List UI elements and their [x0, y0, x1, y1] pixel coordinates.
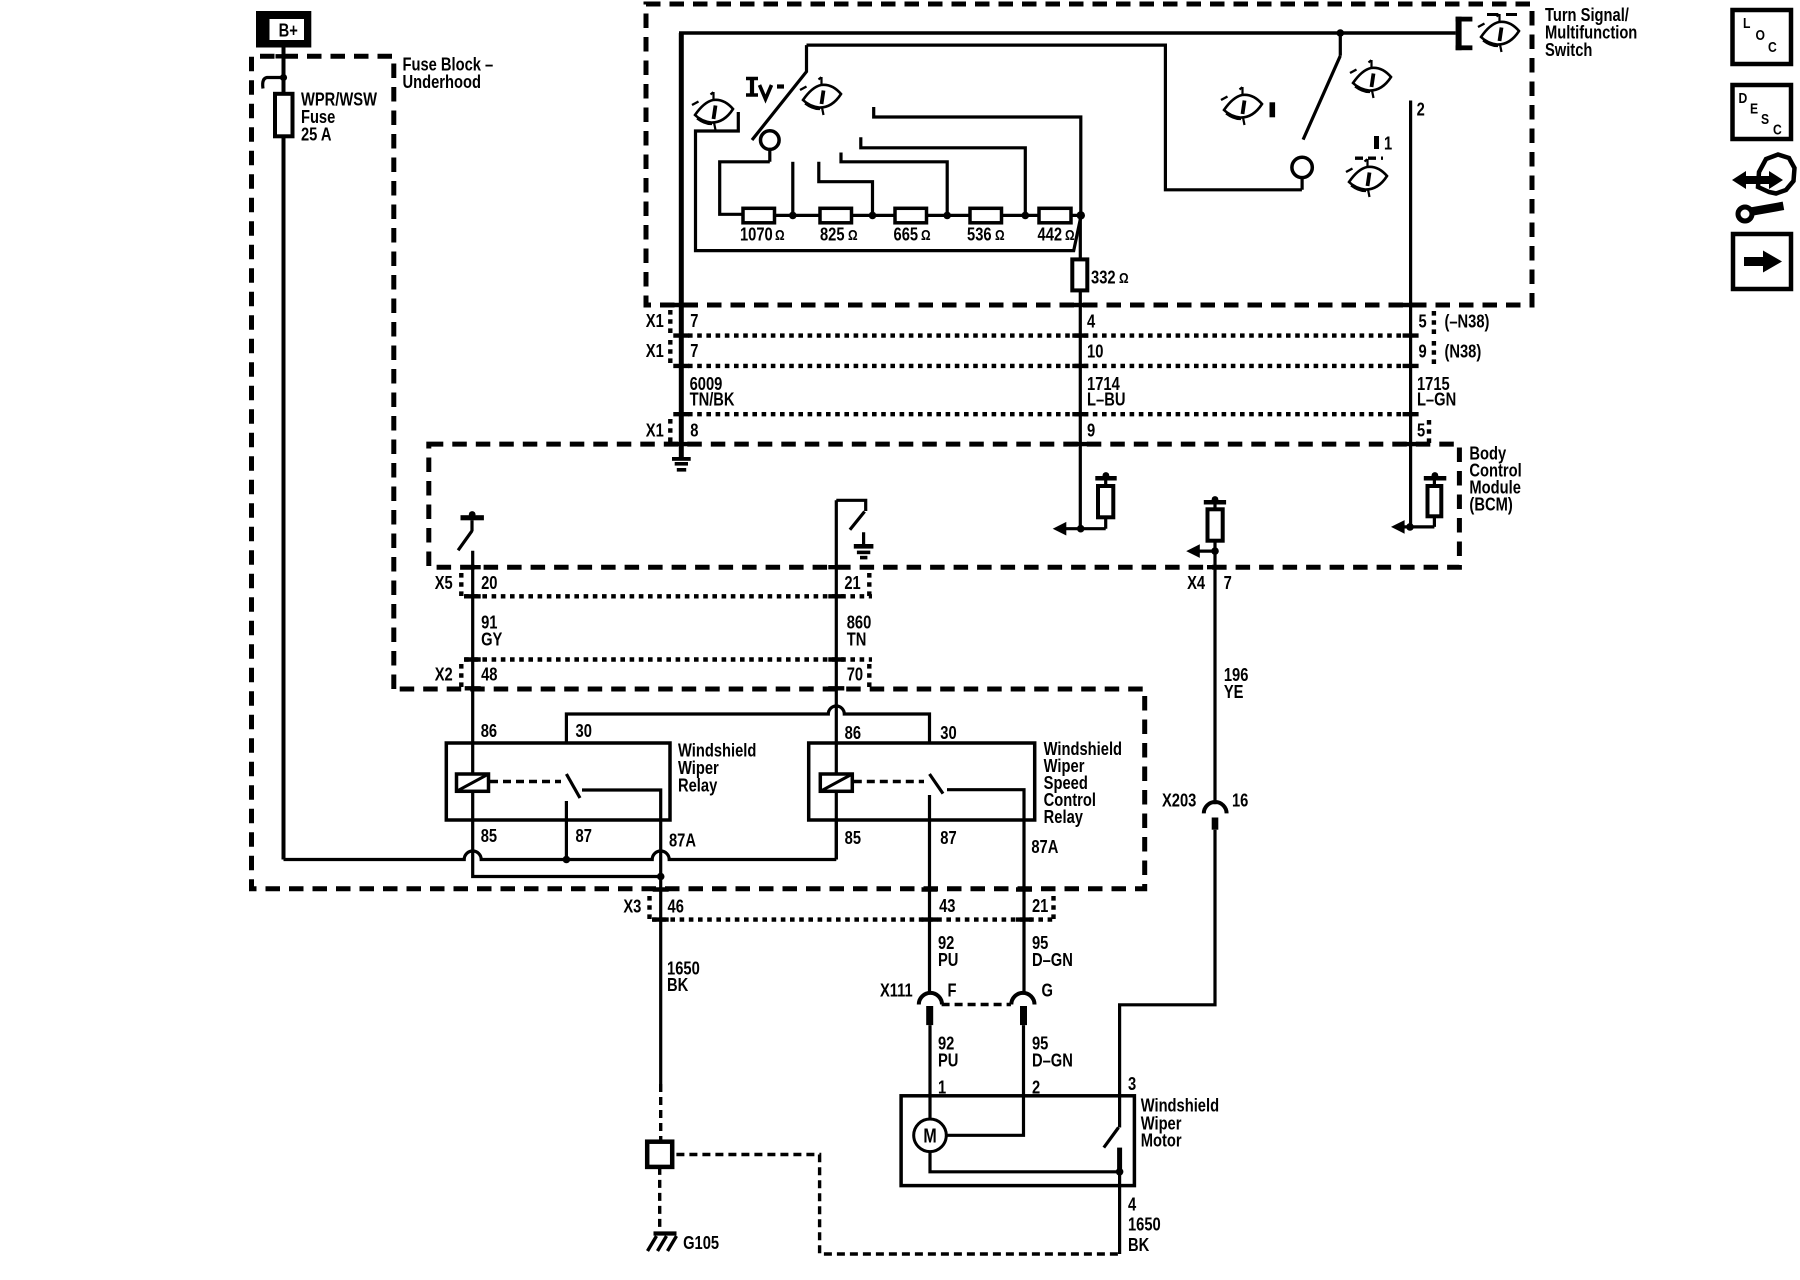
svg-text:30: 30 — [576, 720, 592, 741]
svg-text:86: 86 — [481, 720, 497, 741]
svg-text:4: 4 — [1128, 1194, 1137, 1215]
svg-text:3: 3 — [1128, 1073, 1136, 1094]
svg-text:Ω: Ω — [921, 227, 931, 244]
svg-text:2: 2 — [1417, 99, 1425, 120]
svg-text:Switch: Switch — [1545, 40, 1592, 61]
svg-text:5: 5 — [1417, 420, 1425, 441]
svg-text:X111: X111 — [880, 980, 913, 1001]
svg-text:48: 48 — [481, 664, 497, 685]
svg-text:X4: X4 — [1187, 572, 1206, 593]
svg-text:TN/BK: TN/BK — [690, 389, 735, 410]
svg-text:87A: 87A — [1031, 836, 1058, 857]
svg-text:7: 7 — [690, 310, 698, 331]
svg-text:70: 70 — [847, 664, 863, 685]
svg-text:GY: GY — [481, 629, 502, 650]
svg-text:X2: X2 — [435, 664, 453, 685]
svg-text:87A: 87A — [669, 830, 696, 851]
svg-text:332: 332 — [1091, 267, 1116, 288]
svg-text:9: 9 — [1418, 341, 1426, 362]
svg-text:825: 825 — [820, 224, 845, 245]
svg-text:L: L — [1743, 15, 1750, 32]
svg-text:BK: BK — [667, 974, 688, 995]
svg-text:O: O — [1756, 27, 1766, 44]
svg-text:86: 86 — [845, 722, 861, 743]
svg-text:7: 7 — [690, 340, 698, 361]
svg-text:21: 21 — [844, 572, 860, 593]
svg-text:C: C — [1768, 39, 1777, 56]
svg-text:1070: 1070 — [740, 224, 773, 245]
svg-text:Ω: Ω — [848, 227, 858, 244]
svg-text:2: 2 — [1032, 1077, 1040, 1098]
svg-text:85: 85 — [845, 827, 861, 848]
svg-text:Ω: Ω — [1119, 270, 1129, 287]
svg-text:(BCM): (BCM) — [1469, 494, 1512, 515]
svg-text:87: 87 — [576, 825, 592, 846]
svg-text:PU: PU — [938, 949, 958, 970]
svg-text:536: 536 — [967, 224, 992, 245]
svg-text:16: 16 — [1232, 790, 1248, 811]
svg-text:X203: X203 — [1162, 790, 1196, 811]
svg-text:D–GN: D–GN — [1032, 949, 1073, 970]
svg-text:L–BU: L–BU — [1087, 389, 1125, 410]
svg-text:X1: X1 — [646, 310, 664, 331]
svg-text:(–N38): (–N38) — [1444, 311, 1489, 332]
svg-text:(N38): (N38) — [1444, 341, 1481, 362]
svg-text:43: 43 — [939, 895, 955, 916]
svg-text:C: C — [1773, 121, 1782, 138]
svg-text:30: 30 — [940, 722, 956, 743]
svg-text:5: 5 — [1418, 311, 1426, 332]
svg-text:D: D — [1738, 90, 1747, 107]
svg-text:9: 9 — [1087, 420, 1095, 441]
svg-text:PU: PU — [938, 1050, 958, 1071]
svg-text:E: E — [1750, 100, 1758, 117]
svg-text:665: 665 — [894, 224, 919, 245]
svg-text:8: 8 — [690, 420, 698, 441]
svg-text:TN: TN — [847, 629, 867, 650]
svg-text:1: 1 — [1384, 133, 1392, 154]
svg-text:X1: X1 — [646, 340, 664, 361]
svg-text:25 A: 25 A — [301, 124, 332, 145]
svg-text:X5: X5 — [435, 572, 453, 593]
svg-text:X3: X3 — [623, 896, 641, 917]
svg-text:1: 1 — [938, 1077, 946, 1098]
svg-text:1650: 1650 — [1128, 1214, 1161, 1235]
svg-text:G: G — [1042, 980, 1053, 1001]
svg-text:YE: YE — [1224, 681, 1244, 702]
svg-text:L–GN: L–GN — [1417, 389, 1456, 410]
svg-text:Relay: Relay — [1044, 806, 1084, 827]
svg-text:Ω: Ω — [1065, 227, 1075, 244]
svg-text:85: 85 — [481, 825, 497, 846]
svg-text:4: 4 — [1087, 311, 1096, 332]
svg-text:442: 442 — [1038, 224, 1063, 245]
svg-text:Underhood: Underhood — [402, 71, 480, 92]
svg-text:7: 7 — [1224, 572, 1232, 593]
svg-text:F: F — [948, 980, 957, 1001]
svg-text:10: 10 — [1087, 341, 1103, 362]
svg-text:M: M — [923, 1125, 936, 1147]
svg-text:G105: G105 — [683, 1232, 719, 1253]
svg-text:X1: X1 — [646, 420, 664, 441]
svg-text:87: 87 — [940, 827, 956, 848]
svg-text:Motor: Motor — [1141, 1130, 1182, 1151]
svg-text:Ω: Ω — [775, 227, 785, 244]
svg-text:B+: B+ — [279, 20, 298, 41]
svg-text:Relay: Relay — [678, 775, 718, 796]
svg-text:BK: BK — [1128, 1234, 1149, 1255]
svg-text:Ω: Ω — [995, 227, 1005, 244]
svg-text:46: 46 — [668, 896, 684, 917]
svg-text:21: 21 — [1032, 895, 1048, 916]
svg-text:S: S — [1761, 111, 1769, 128]
svg-text:20: 20 — [481, 572, 497, 593]
svg-text:D–GN: D–GN — [1032, 1050, 1073, 1071]
